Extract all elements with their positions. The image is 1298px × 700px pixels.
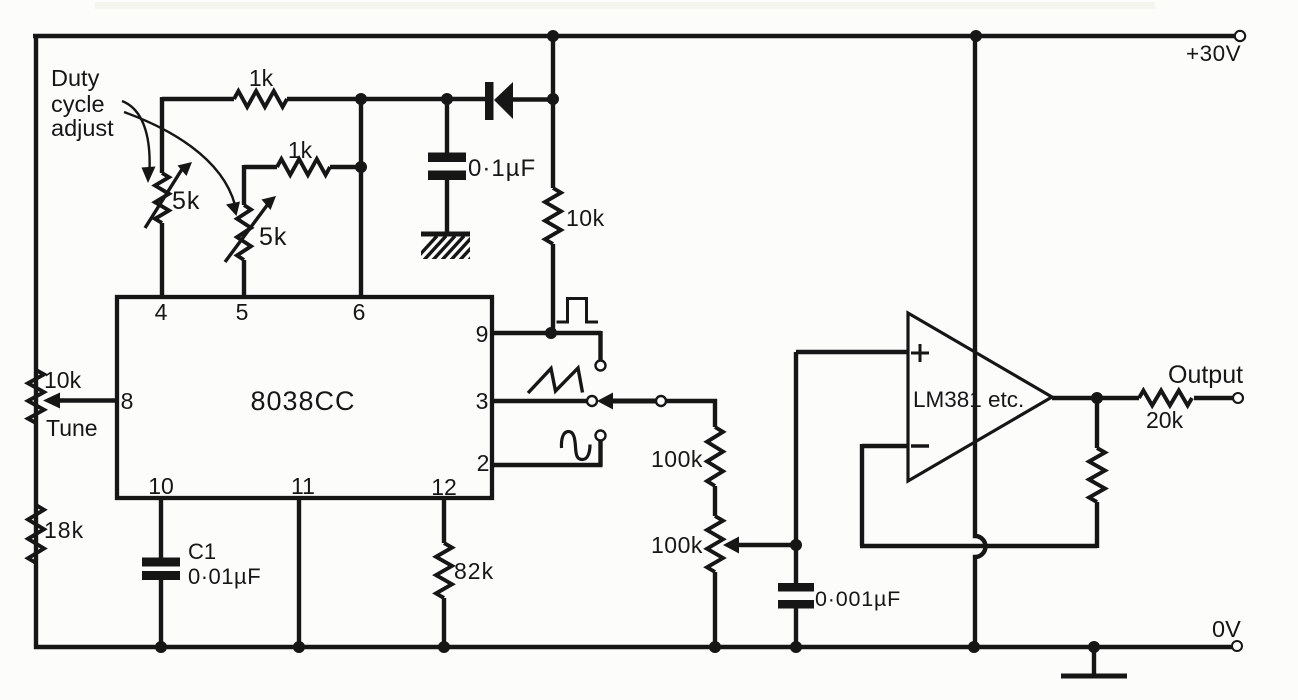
svg-text:8038CC: 8038CC [250,386,355,416]
svg-text:Output: Output [1168,361,1243,389]
svg-text:100k: 100k [651,532,703,558]
svg-text:0·1µF: 0·1µF [468,155,536,182]
svg-text:adjust: adjust [51,115,114,141]
svg-text:+30V: +30V [1186,41,1241,66]
svg-text:10k: 10k [566,205,605,231]
svg-text:100k: 100k [651,446,703,472]
svg-text:LM381 etc.: LM381 etc. [913,387,1024,412]
svg-text:1k: 1k [249,65,274,91]
svg-text:9: 9 [476,321,489,347]
svg-text:1k: 1k [288,137,313,163]
svg-text:10: 10 [148,473,174,499]
svg-text:0·001µF: 0·001µF [815,587,901,611]
svg-text:5k: 5k [259,223,287,251]
svg-text:Tune: Tune [46,415,98,441]
svg-text:0V: 0V [1212,616,1241,642]
svg-text:82k: 82k [454,558,494,584]
svg-text:10k: 10k [44,367,82,393]
svg-text:4: 4 [155,299,168,325]
svg-text:11: 11 [291,473,315,499]
svg-text:3: 3 [476,388,489,414]
svg-text:2: 2 [477,450,490,476]
svg-text:cycle: cycle [51,91,105,117]
svg-text:20k: 20k [1146,407,1184,433]
svg-text:C1: C1 [188,539,216,564]
svg-text:8: 8 [121,388,134,414]
svg-text:5k: 5k [172,187,200,215]
svg-text:6: 6 [353,299,366,325]
svg-text:18k: 18k [44,517,84,543]
svg-text:0·01µF: 0·01µF [188,564,261,589]
svg-text:5: 5 [236,299,249,325]
svg-text:12: 12 [431,474,457,500]
svg-text:Duty: Duty [51,65,100,91]
